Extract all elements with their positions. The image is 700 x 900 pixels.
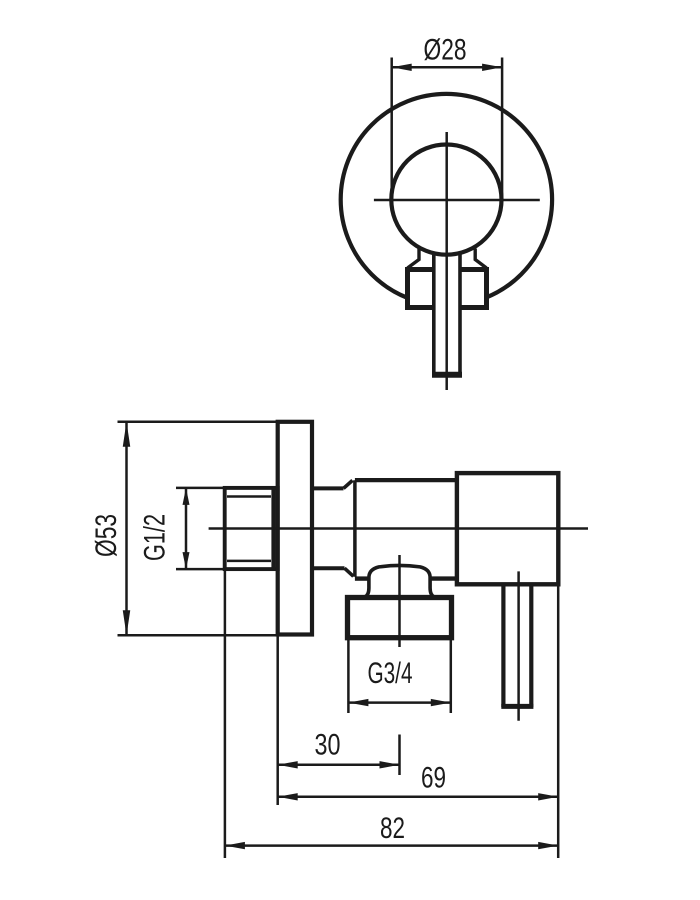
svg-text:G3/4: G3/4 — [368, 657, 413, 690]
svg-text:69: 69 — [421, 762, 446, 795]
svg-text:82: 82 — [380, 812, 405, 845]
svg-text:Ø53: Ø53 — [90, 514, 123, 557]
svg-text:30: 30 — [315, 729, 341, 762]
svg-text:G1/2: G1/2 — [139, 514, 172, 561]
svg-text:Ø28: Ø28 — [424, 34, 467, 67]
